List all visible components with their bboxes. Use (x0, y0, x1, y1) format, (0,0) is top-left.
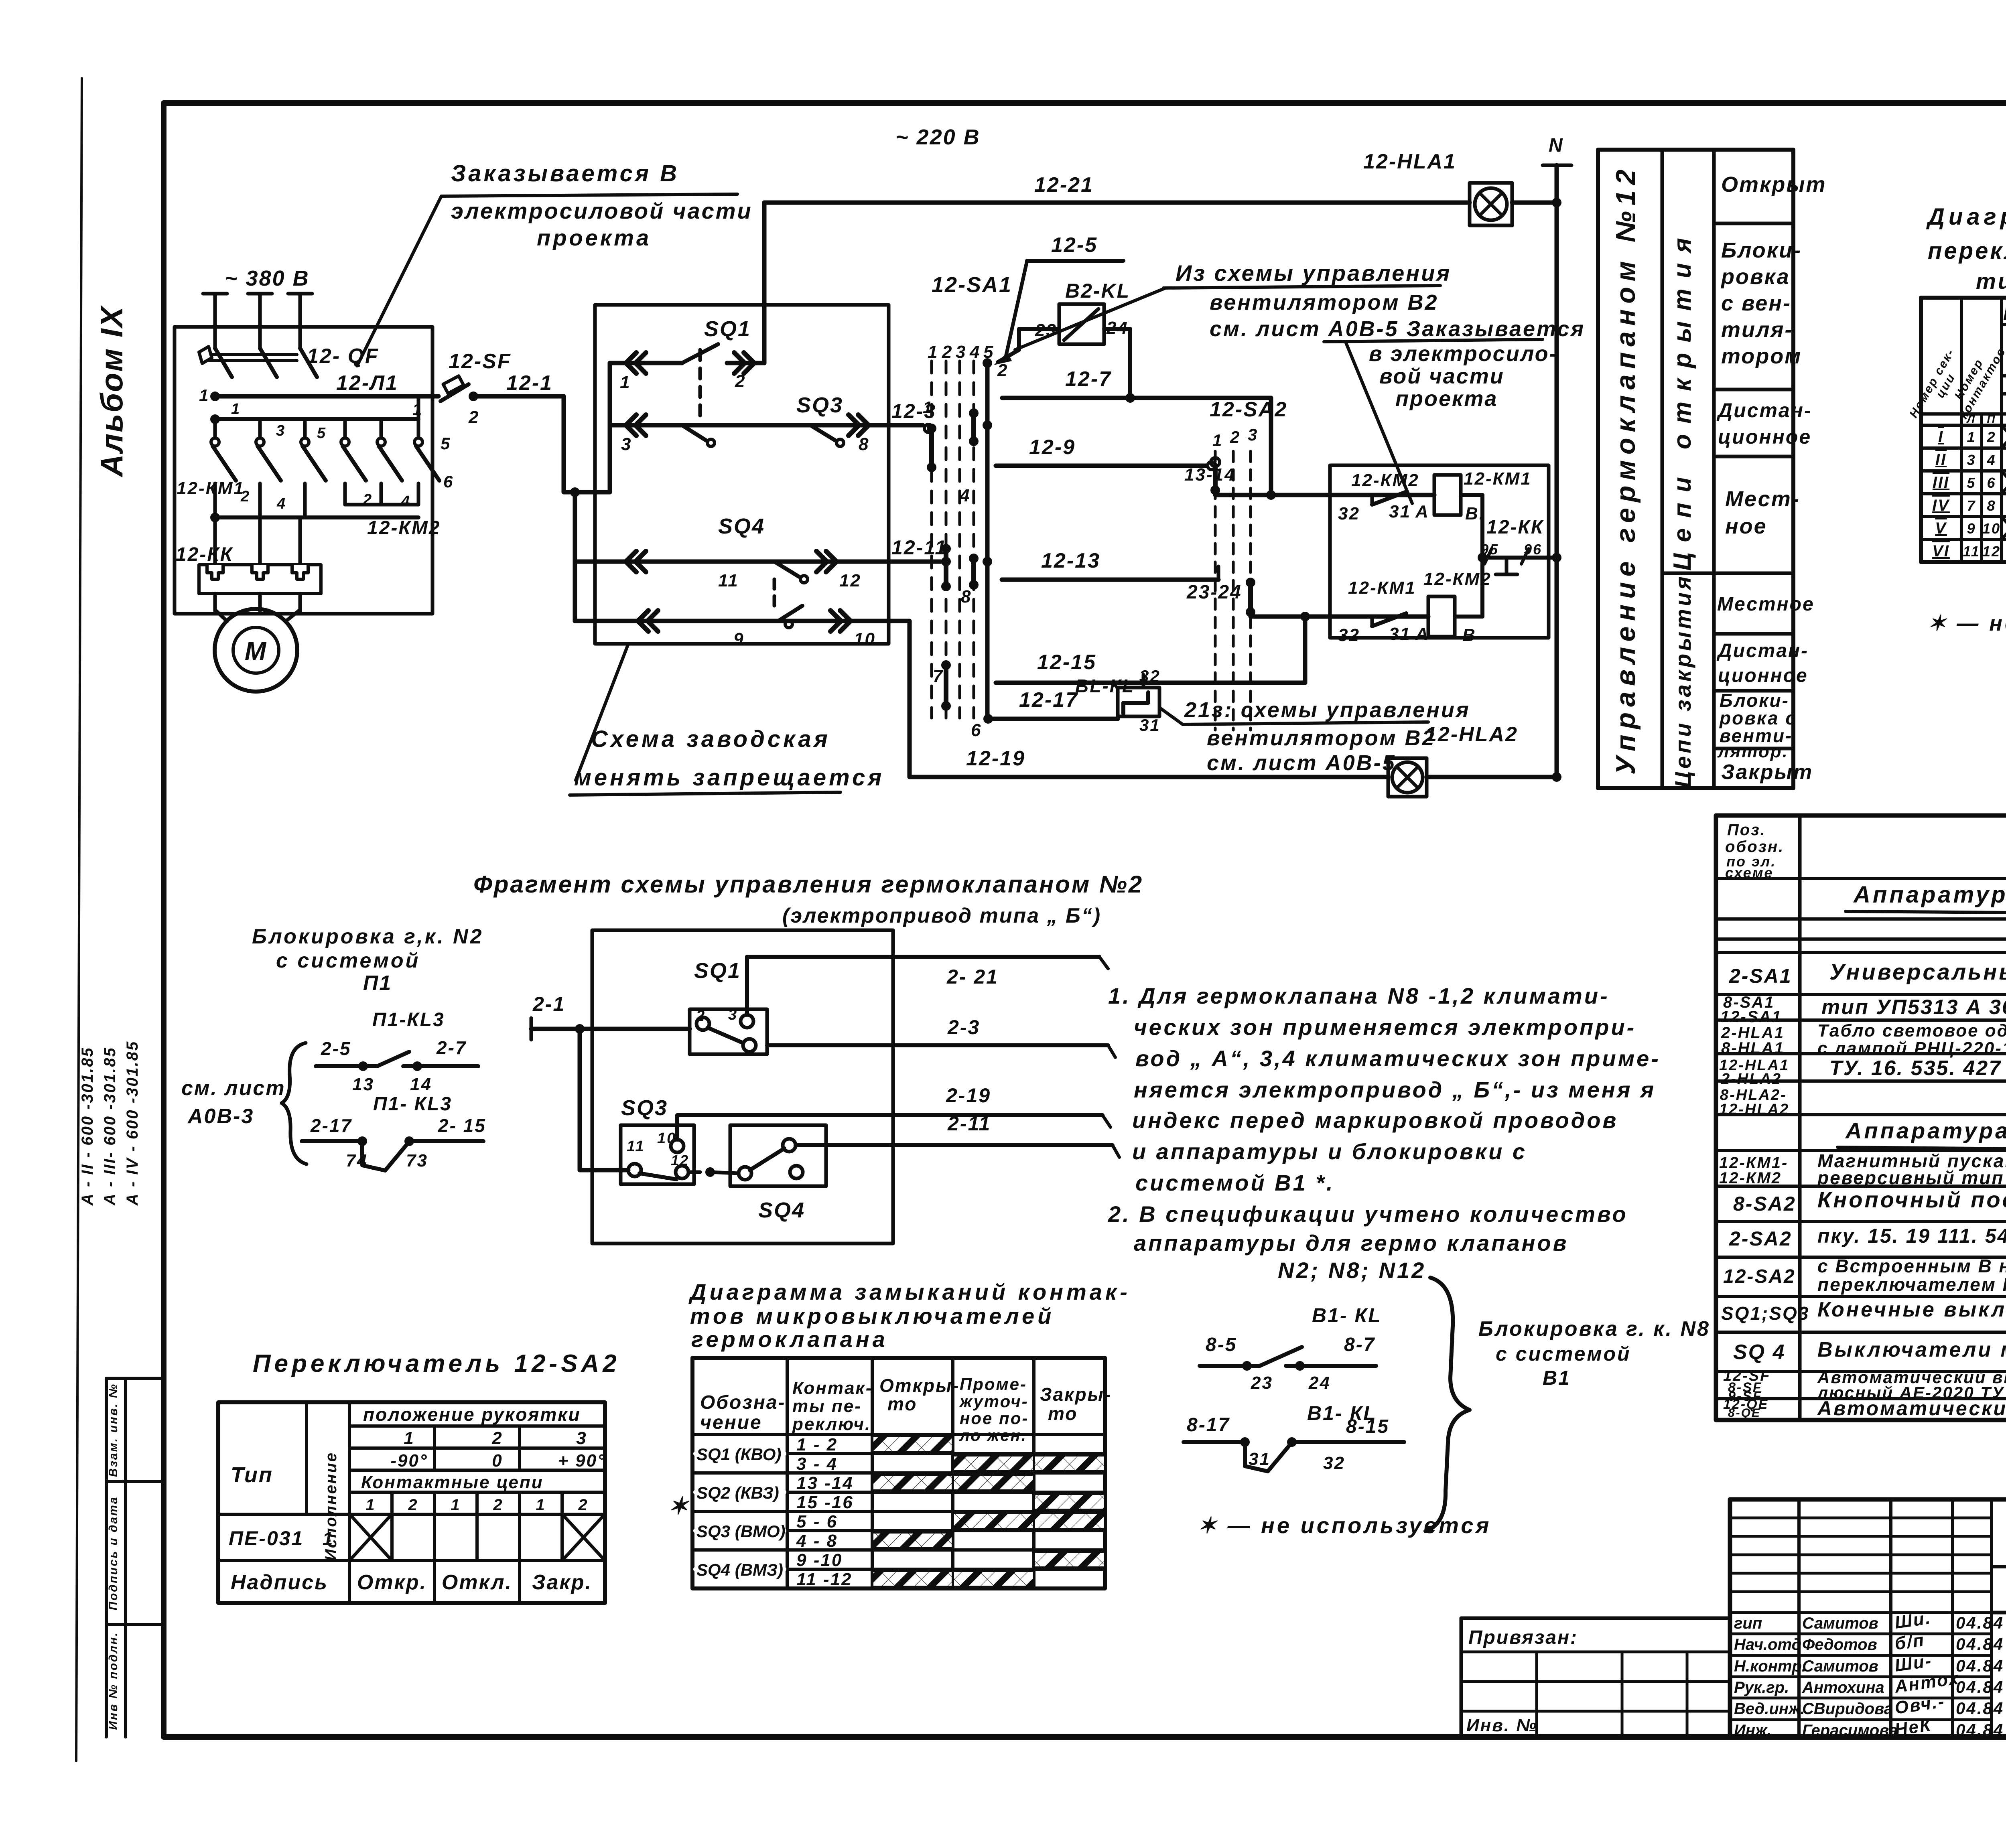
svg-text:Поз.: Поз. (1727, 821, 1766, 839)
svg-text:73: 73 (406, 1151, 428, 1170)
svg-text:А0В-3: А0В-3 (187, 1105, 254, 1128)
svg-text:4: 4 (969, 342, 981, 362)
svg-text:12-КМ2: 12-КМ2 (367, 517, 441, 539)
svg-text:32: 32 (1139, 667, 1161, 686)
svg-text:переключателя 12- SA1: переключателя 12- SA1 (1928, 238, 2006, 264)
svg-text:1: 1 (620, 373, 631, 392)
svg-text:1: 1 (404, 1428, 414, 1448)
svg-text:10: 10 (657, 1130, 676, 1147)
svg-text:Взам. инв. №: Взам. инв. № (107, 1383, 120, 1477)
svg-text:III: III (1933, 474, 1949, 491)
svg-text:12-SA2: 12-SA2 (1723, 1266, 1796, 1287)
svg-text:2-HLA2: 2-HLA2 (1721, 1071, 1782, 1087)
svg-text:Закр.: Закр. (532, 1571, 592, 1594)
svg-text:SQ4: SQ4 (718, 514, 765, 538)
svg-text:31: 31 (1139, 716, 1161, 734)
svg-text:4: 4 (1986, 452, 1996, 468)
svg-text:ло жен.: ло жен. (959, 1427, 1027, 1444)
svg-text:1: 1 (323, 1528, 334, 1549)
svg-text:вой части: вой части (1379, 364, 1504, 388)
svg-text:VI: VI (1932, 542, 1950, 560)
svg-text:2-17: 2-17 (310, 1115, 352, 1136)
svg-text:SQ1: SQ1 (694, 959, 741, 983)
svg-text:ционное: ционное (1718, 426, 1811, 448)
svg-text:2: 2 (468, 408, 479, 427)
svg-text:04.84: 04.84 (1956, 1635, 2004, 1653)
svg-text:32: 32 (1323, 1453, 1345, 1473)
svg-text:Откл.: Откл. (442, 1571, 512, 1594)
svg-text:М: М (245, 637, 267, 665)
svg-text:6: 6 (971, 720, 982, 740)
svg-text:Положение рукоятки: Положение рукоятки (2003, 303, 2006, 324)
svg-text:N2; N8; N12: N2; N8; N12 (1278, 1258, 1426, 1283)
svg-text:тов микровыключателей: тов микровыключателей (690, 1303, 1054, 1329)
svg-text:ционное: ционное (1718, 665, 1808, 686)
svg-text:Федотов: Федотов (1802, 1636, 1877, 1653)
svg-text:0: 0 (492, 1451, 503, 1471)
svg-text:2: 2 (491, 1428, 503, 1448)
svg-text:12-5: 12-5 (1051, 233, 1098, 257)
svg-text:12-SA2: 12-SA2 (1210, 398, 1287, 421)
svg-text:3: 3 (1967, 452, 1976, 468)
svg-text:Управление гермоклапаном №1: Управление гермоклапаном №12 (1610, 164, 1641, 775)
svg-text:~ 220 В: ~ 220 В (895, 125, 981, 149)
svg-text:индекс перед маркировкой п: индекс перед маркировкой проводов (1132, 1108, 1618, 1133)
svg-text:вод „ А“, 3,4 климатических: вод „ А“, 3,4 климатических зон приме- (1135, 1046, 1661, 1071)
svg-text:тором: тором (1721, 344, 1802, 368)
svg-text:2: 2 (240, 488, 250, 505)
svg-text:4: 4 (959, 486, 971, 505)
svg-text:SQ1;SQ3: SQ1;SQ3 (1721, 1303, 1809, 1324)
svg-text:ВL-КL: ВL-КL (1075, 676, 1135, 696)
svg-text:Привязан:: Привязан: (1468, 1627, 1578, 1648)
svg-text:Местное: Местное (1717, 594, 1815, 615)
svg-text:П: П (1987, 413, 1996, 425)
svg-text:Контак-: Контак- (792, 1378, 873, 1398)
svg-text:5: 5 (317, 425, 327, 442)
svg-text:реключ.: реключ. (792, 1414, 871, 1434)
svg-text:см. лист А0В-5: см. лист А0В-5 (1207, 751, 1396, 775)
svg-text:8: 8 (859, 434, 869, 454)
svg-text:12: 12 (671, 1152, 689, 1168)
svg-text:А: А (1415, 502, 1429, 521)
svg-text:гип: гип (1734, 1615, 1762, 1632)
svg-text:12- QF: 12- QF (307, 345, 379, 368)
svg-text:8-17: 8-17 (1187, 1414, 1230, 1436)
svg-text:Проме-: Проме- (960, 1375, 1027, 1394)
svg-text:А - III- 600 -301.85: А - III- 600 -301.85 (101, 1047, 119, 1206)
svg-text:1: 1 (536, 1496, 546, 1514)
svg-text:Закры-: Закры- (1040, 1384, 1112, 1405)
svg-text:2: 2 (1986, 429, 1996, 445)
svg-text:2: 2 (408, 1496, 418, 1514)
svg-text:В: В (1462, 625, 1476, 645)
svg-text:V: V (1935, 519, 1947, 537)
svg-text:П1- КL3: П1- КL3 (373, 1093, 452, 1115)
svg-text:Подпись и дата: Подпись и дата (107, 1496, 120, 1610)
svg-text:2: 2 (942, 342, 953, 362)
svg-text:23-24: 23-24 (1186, 582, 1242, 603)
svg-text:8-15: 8-15 (1346, 1416, 1389, 1437)
svg-text:положение рукоятки: положение рукоятки (363, 1404, 581, 1425)
svg-text:Заказывается В: Заказывается В (451, 160, 679, 187)
svg-text:В1- КL: В1- КL (1312, 1304, 1382, 1327)
svg-text:Закрыт: Закрыт (1721, 761, 1813, 784)
svg-text:12-КМ1: 12-КМ1 (1464, 469, 1532, 489)
svg-text:Откр.: Откр. (357, 1571, 427, 1594)
svg-text:Аппаратура по месту: Аппаратура по месту (1845, 1118, 2006, 1143)
svg-text:SQ 4: SQ 4 (1733, 1341, 1786, 1364)
svg-text:системой В1 *.: системой В1 *. (1135, 1170, 1335, 1195)
svg-text:см. лист: см. лист (181, 1077, 286, 1100)
svg-text:чение: чение (700, 1412, 762, 1433)
svg-text:В1: В1 (1543, 1367, 1571, 1389)
svg-text:SQ2 (КВЗ): SQ2 (КВЗ) (696, 1483, 779, 1503)
svg-text:21з: схемы управления: 21з: схемы управления (1184, 698, 1470, 722)
svg-text:13 -14: 13 -14 (796, 1473, 854, 1493)
svg-text:Контактные цепи: Контактные цепи (361, 1473, 544, 1492)
svg-text:12-SA1: 12-SA1 (1720, 1008, 1782, 1026)
svg-text:2-3: 2-3 (947, 1016, 980, 1039)
svg-text:11: 11 (627, 1138, 645, 1155)
svg-text:лятор.: лятор. (1717, 742, 1789, 761)
svg-text:Нач.отд: Нач.отд (1734, 1636, 1801, 1653)
svg-text:Диаграмма работы: Диаграмма работы (1926, 204, 2006, 230)
svg-text:5 - 6: 5 - 6 (796, 1512, 838, 1532)
svg-text:12-19: 12-19 (966, 747, 1025, 770)
svg-text:8-HLA1: 8-HLA1 (1721, 1039, 1785, 1057)
svg-text:1: 1 (1212, 431, 1223, 450)
svg-text:✶ — не используется: ✶ — не используется (1928, 611, 2006, 635)
svg-text:12-17: 12-17 (1019, 688, 1078, 712)
svg-text:тиля-: тиля- (1721, 318, 1793, 342)
svg-text:12-HLA2: 12-HLA2 (1719, 1101, 1789, 1118)
svg-text:(электропривод типа „ Б“): (электропривод типа „ Б“) (782, 904, 1101, 927)
svg-text:2-1: 2-1 (532, 993, 565, 1015)
svg-text:Рук.гр.: Рук.гр. (1734, 1679, 1789, 1696)
svg-text:3: 3 (728, 1006, 738, 1023)
svg-text:8-7: 8-7 (1344, 1334, 1375, 1355)
svg-text:04.84: 04.84 (1956, 1656, 2004, 1675)
svg-text:с системой: с системой (1496, 1343, 1631, 1365)
svg-text:Аппаратура на щите (ШУЦ): Аппаратура на щите (ШУЦ) (1853, 882, 2006, 908)
svg-text:В2-KL: В2-KL (1065, 280, 1130, 302)
svg-text:12-11: 12-11 (891, 536, 947, 559)
svg-text:14: 14 (410, 1075, 432, 1094)
svg-text:31: 31 (1389, 624, 1411, 644)
svg-text:Автоматический Выключатель: Автоматический Выключатель (1817, 1397, 2006, 1420)
svg-text:2: 2 (696, 1008, 706, 1024)
svg-text:SQ3 (ВМО): SQ3 (ВМО) (696, 1522, 786, 1541)
svg-text:✶: ✶ (668, 1493, 690, 1519)
svg-text:в электросило-: в электросило- (1369, 342, 1558, 366)
svg-text:Надпись: Надпись (231, 1571, 328, 1594)
svg-text:и аппаратуры и блокировки: и аппаратуры и блокировки с (1132, 1139, 1527, 1164)
svg-text:ное: ное (1725, 514, 1767, 538)
svg-text:Открыт: Открыт (1721, 172, 1827, 197)
svg-text:04.84: 04.84 (1956, 1720, 2004, 1739)
svg-text:с вен-: с вен- (1721, 291, 1791, 315)
svg-text:12-13: 12-13 (1041, 549, 1100, 572)
svg-text:Л: Л (1966, 413, 1976, 425)
svg-text:12-КМ2: 12-КМ2 (1423, 569, 1492, 589)
svg-text:13: 13 (352, 1075, 374, 1094)
svg-text:жуточ-: жуточ- (959, 1392, 1029, 1411)
svg-text:74: 74 (346, 1151, 368, 1170)
svg-text:2- 15: 2- 15 (438, 1115, 486, 1136)
svg-text:+ 90°: + 90° (558, 1451, 605, 1471)
svg-text:~ 380 В: ~ 380 В (225, 266, 310, 290)
svg-text:32: 32 (1338, 625, 1360, 645)
svg-text:IV: IV (1932, 497, 1950, 514)
svg-text:Альбом IX: Альбом IX (94, 305, 129, 477)
svg-text:Из схемы управления: Из схемы управления (1176, 260, 1451, 286)
svg-text:П1: П1 (363, 972, 392, 995)
svg-text:12-21: 12-21 (1034, 173, 1094, 197)
svg-text:SQ4: SQ4 (758, 1198, 805, 1222)
svg-text:8-5: 8-5 (1206, 1334, 1237, 1355)
svg-text:Инв № подлн.: Инв № подлн. (107, 1631, 120, 1730)
svg-text:11: 11 (718, 571, 739, 590)
svg-text:с лампой РНЦ-220-10: с лампой РНЦ-220-10 (1817, 1039, 2006, 1058)
svg-text:9: 9 (733, 629, 744, 649)
svg-text:схеме: схеме (1725, 864, 1773, 881)
svg-text:Вед.инж.: Вед.инж. (1734, 1700, 1805, 1718)
svg-text:96: 96 (1524, 541, 1542, 558)
svg-text:Обозна-: Обозна- (700, 1392, 786, 1413)
svg-text:✶ — не используется: ✶ — не используется (1198, 1513, 1491, 1538)
svg-text:переключателем ПЕ-031 ис: переключателем ПЕ-031 исп. 1 (1817, 1274, 2006, 1295)
svg-text:12-Л1: 12-Л1 (336, 371, 398, 395)
svg-text:2. В спецификации учтено ко: 2. В спецификации учтено количество (1108, 1201, 1628, 1227)
svg-text:-90°: -90° (390, 1451, 428, 1471)
svg-text:6: 6 (1987, 475, 1996, 491)
svg-text:ровка: ровка (1720, 265, 1790, 289)
svg-text:с Встроенным В него: с Встроенным В него (1817, 1256, 2006, 1276)
svg-text:гермоклапана: гермоклапана (691, 1327, 888, 1352)
svg-text:Самитов: Самитов (1802, 1615, 1878, 1632)
svg-text:12-1: 12-1 (506, 371, 553, 395)
svg-text:12-HLA2: 12-HLA2 (1425, 723, 1518, 746)
svg-text:П1-КL3: П1-КL3 (372, 1009, 445, 1030)
svg-text:Схема заводская: Схема заводская (591, 726, 830, 752)
svg-text:9 -10: 9 -10 (796, 1550, 843, 1570)
svg-text:ТУ. 16. 535. 427 - 79: ТУ. 16. 535. 427 - 79 (1829, 1057, 2006, 1080)
svg-text:Инв. №: Инв. № (1466, 1716, 1538, 1735)
svg-text:пку. 15. 19 111. 54 УЗ.ТУ 1: пку. 15. 19 111. 54 УЗ.ТУ 16.526.333-74 (1817, 1225, 2006, 1247)
svg-text:10: 10 (1982, 520, 2001, 537)
svg-text:5: 5 (441, 434, 451, 453)
svg-text:23: 23 (1251, 1373, 1273, 1393)
svg-text:ческих зон применяется элект: ческих зон применяется электропри- (1134, 1014, 1636, 1040)
svg-text:32: 32 (1338, 504, 1360, 523)
svg-text:3: 3 (1248, 425, 1258, 444)
svg-text:А - II - 600 -301.85: А - II - 600 -301.85 (79, 1047, 96, 1206)
svg-text:2-7: 2-7 (436, 1037, 467, 1058)
svg-text:Диаграмма замыканий контак-: Диаграмма замыканий контак- (688, 1279, 1131, 1304)
svg-text:Конечные выключатели: Конечные выключатели (1817, 1298, 2006, 1321)
svg-text:11: 11 (1963, 543, 1980, 560)
svg-text:Антохина: Антохина (1802, 1679, 1884, 1696)
svg-text:6: 6 (443, 472, 454, 491)
svg-text:12: 12 (1982, 543, 2001, 560)
svg-text:с системой: с системой (276, 949, 420, 972)
svg-text:3: 3 (621, 434, 632, 454)
svg-text:SQ3: SQ3 (621, 1096, 668, 1120)
svg-text:12-SF: 12-SF (449, 350, 512, 373)
svg-text:1. Для гермоклапана N8 -1,2: 1. Для гермоклапана N8 -1,2 климати- (1108, 983, 1610, 1008)
svg-text:проекта: проекта (537, 225, 651, 250)
svg-text:1 - 2: 1 - 2 (796, 1435, 838, 1454)
svg-text:2: 2 (735, 371, 746, 391)
svg-text:N: N (1549, 135, 1564, 156)
svg-text:8: 8 (961, 587, 972, 607)
svg-text:Цепи закрытия: Цепи закрытия (1670, 574, 1695, 788)
svg-text:4 - 8: 4 - 8 (796, 1531, 838, 1551)
svg-text:Дистан-: Дистан- (1716, 640, 1809, 661)
svg-text:12-15: 12-15 (1037, 651, 1096, 674)
svg-text:тип УП5313 Л368: тип УП5313 Л368 (1976, 268, 2006, 294)
svg-text:А - IV - 600 -301.85: А - IV - 600 -301.85 (124, 1041, 141, 1206)
svg-text:8-SA2: 8-SA2 (1733, 1193, 1796, 1215)
svg-text:SQ1 (КВО): SQ1 (КВО) (696, 1445, 781, 1464)
svg-text:то: то (887, 1394, 917, 1414)
svg-text:ПЕ-031: ПЕ-031 (229, 1527, 304, 1550)
svg-text:9: 9 (1967, 520, 1976, 537)
svg-text:12-КМ1: 12-КМ1 (1348, 578, 1416, 598)
svg-text:2-SA2: 2-SA2 (1729, 1227, 1792, 1250)
svg-text:Откры-: Откры- (879, 1375, 960, 1396)
svg-text:04.84: 04.84 (1956, 1699, 2004, 1718)
svg-text:5: 5 (1967, 475, 1976, 491)
svg-text:Фрагмент схемы управления герм: Фрагмент схемы управления гермоклапаном … (473, 871, 1143, 898)
svg-text:12-7: 12-7 (1065, 367, 1112, 391)
svg-text:2: 2 (493, 1496, 503, 1514)
svg-text:1: 1 (1967, 429, 1976, 445)
svg-text:Универсальный переключатель: Универсальный переключатель (1829, 959, 2006, 984)
svg-text:Тип: Тип (231, 1463, 273, 1487)
svg-text:Инж.: Инж. (1734, 1722, 1772, 1739)
svg-text:8-QЕ: 8-QЕ (1728, 1406, 1761, 1420)
svg-text:см. лист А0В-5 Заказывается: см. лист А0В-5 Заказывается (1210, 317, 1585, 341)
svg-text:15 -16: 15 -16 (796, 1493, 854, 1512)
svg-text:4: 4 (401, 493, 411, 510)
svg-text:электросиловой части: электросиловой части (451, 198, 753, 223)
svg-text:04.84: 04.84 (1956, 1613, 2004, 1632)
svg-text:Выключатели муфты: Выключатели муфты (1817, 1338, 2006, 1361)
svg-text:Мест-: Мест- (1725, 487, 1800, 511)
svg-text:2: 2 (578, 1496, 588, 1514)
svg-text:SQ3: SQ3 (796, 393, 843, 417)
svg-text:1: 1 (199, 386, 209, 405)
svg-text:то: то (1048, 1403, 1078, 1424)
svg-text:13-14: 13-14 (1184, 465, 1236, 485)
svg-text:1: 1 (365, 1496, 376, 1514)
svg-text:ты пе-: ты пе- (792, 1396, 862, 1416)
svg-text:12-SA1: 12-SA1 (932, 273, 1012, 297)
svg-text:1: 1 (923, 398, 933, 417)
svg-text:12-КК: 12-КК (176, 544, 233, 565)
svg-text:2- 21: 2- 21 (946, 966, 999, 988)
svg-text:2: 2 (1230, 428, 1241, 446)
svg-text:SQ1: SQ1 (704, 317, 751, 341)
svg-text:менять запрещается: менять запрещается (574, 765, 884, 791)
svg-text:I: I (1938, 428, 1944, 446)
svg-text:12: 12 (839, 571, 861, 590)
svg-text:3: 3 (956, 342, 966, 362)
svg-text:8: 8 (1987, 497, 1996, 514)
svg-text:б/п: б/п (1894, 1630, 1926, 1654)
svg-text:Табло световое одноламповое: Табло световое одноламповое тип ТСМ (1817, 1021, 2006, 1041)
svg-text:Переключатель 12-SА2: Переключатель 12-SА2 (253, 1350, 620, 1377)
svg-text:3: 3 (576, 1428, 587, 1448)
svg-text:реверсивный тип ПМЛ: реверсивный тип ПМЛ (1817, 1167, 2006, 1188)
svg-text:Герасимова: Герасимова (1802, 1722, 1898, 1739)
svg-text:няется электропривод „ Б“,- и: няется электропривод „ Б“,- из меня я (1134, 1077, 1656, 1102)
svg-text:3 - 4: 3 - 4 (796, 1454, 838, 1474)
svg-text:12-HLA1: 12-HLA1 (1363, 150, 1456, 173)
svg-text:вентилятором В2: вентилятором В2 (1207, 726, 1436, 750)
svg-text:Цепи открытия: Цепи открытия (1669, 227, 1696, 570)
svg-text:3: 3 (276, 422, 286, 439)
svg-text:11 -12: 11 -12 (796, 1570, 853, 1589)
svg-text:ное по-: ное по- (960, 1409, 1029, 1428)
svg-text:4: 4 (276, 495, 286, 512)
svg-text:12-9: 12-9 (1029, 436, 1076, 459)
svg-text:SQ4 (ВМЗ): SQ4 (ВМЗ) (696, 1560, 783, 1580)
svg-text:95: 95 (1480, 541, 1499, 558)
svg-text:Н.контр.: Н.контр. (1734, 1657, 1806, 1675)
svg-text:2-11: 2-11 (947, 1112, 991, 1135)
svg-text:31: 31 (1389, 502, 1411, 521)
svg-text:24: 24 (1308, 1373, 1331, 1393)
svg-text:2-SA1: 2-SA1 (1729, 965, 1792, 987)
svg-text:СВиридова: СВиридова (1802, 1700, 1893, 1718)
svg-text:12-КМ1: 12-КМ1 (177, 479, 245, 498)
svg-text:Блоки-: Блоки- (1721, 238, 1802, 262)
svg-text:II: II (1935, 451, 1947, 469)
svg-text:тип УП5313 А 368 ТУ 16. 52: тип УП5313 А 368 ТУ 16. 524. 074 -75 (1821, 996, 2006, 1019)
svg-text:Блокировка г. к. N8: Блокировка г. к. N8 (1478, 1317, 1710, 1341)
svg-text:12-КК: 12-КК (1486, 517, 1544, 538)
svg-text:12-КМ2: 12-КМ2 (1719, 1169, 1782, 1187)
svg-text:2-19: 2-19 (946, 1084, 991, 1107)
svg-text:1: 1 (231, 401, 241, 418)
svg-text:проекта: проекта (1395, 387, 1498, 411)
svg-text:31: 31 (1249, 1449, 1271, 1469)
svg-text:Кнопочный пост управления: Кнопочный пост управления (1817, 1187, 2006, 1212)
svg-text:1: 1 (928, 342, 938, 362)
svg-text:7: 7 (933, 666, 944, 686)
svg-text:2: 2 (363, 491, 373, 508)
svg-text:аппаратуры для гермо клапано: аппаратуры для гермо клапанов (1134, 1230, 1568, 1256)
svg-text:1: 1 (451, 1496, 461, 1514)
svg-text:7: 7 (1967, 497, 1976, 514)
svg-text:10: 10 (854, 629, 876, 649)
svg-text:12-КМ2: 12-КМ2 (1351, 471, 1419, 490)
svg-text:Дистан-: Дистан- (1716, 399, 1812, 422)
svg-text:Блокировка г,к. N2: Блокировка г,к. N2 (252, 925, 484, 948)
svg-text:Самитов: Самитов (1802, 1657, 1878, 1675)
svg-text:2-5: 2-5 (321, 1038, 351, 1059)
svg-text:04.84: 04.84 (1956, 1678, 2004, 1696)
svg-text:вентилятором В2: вентилятором В2 (1210, 290, 1439, 314)
